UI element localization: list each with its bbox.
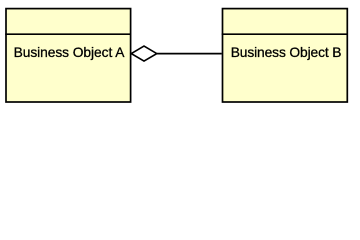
svg-text:Business Object B: Business Object B: [231, 45, 342, 60]
svg-text:Business Object A: Business Object A: [14, 45, 126, 60]
